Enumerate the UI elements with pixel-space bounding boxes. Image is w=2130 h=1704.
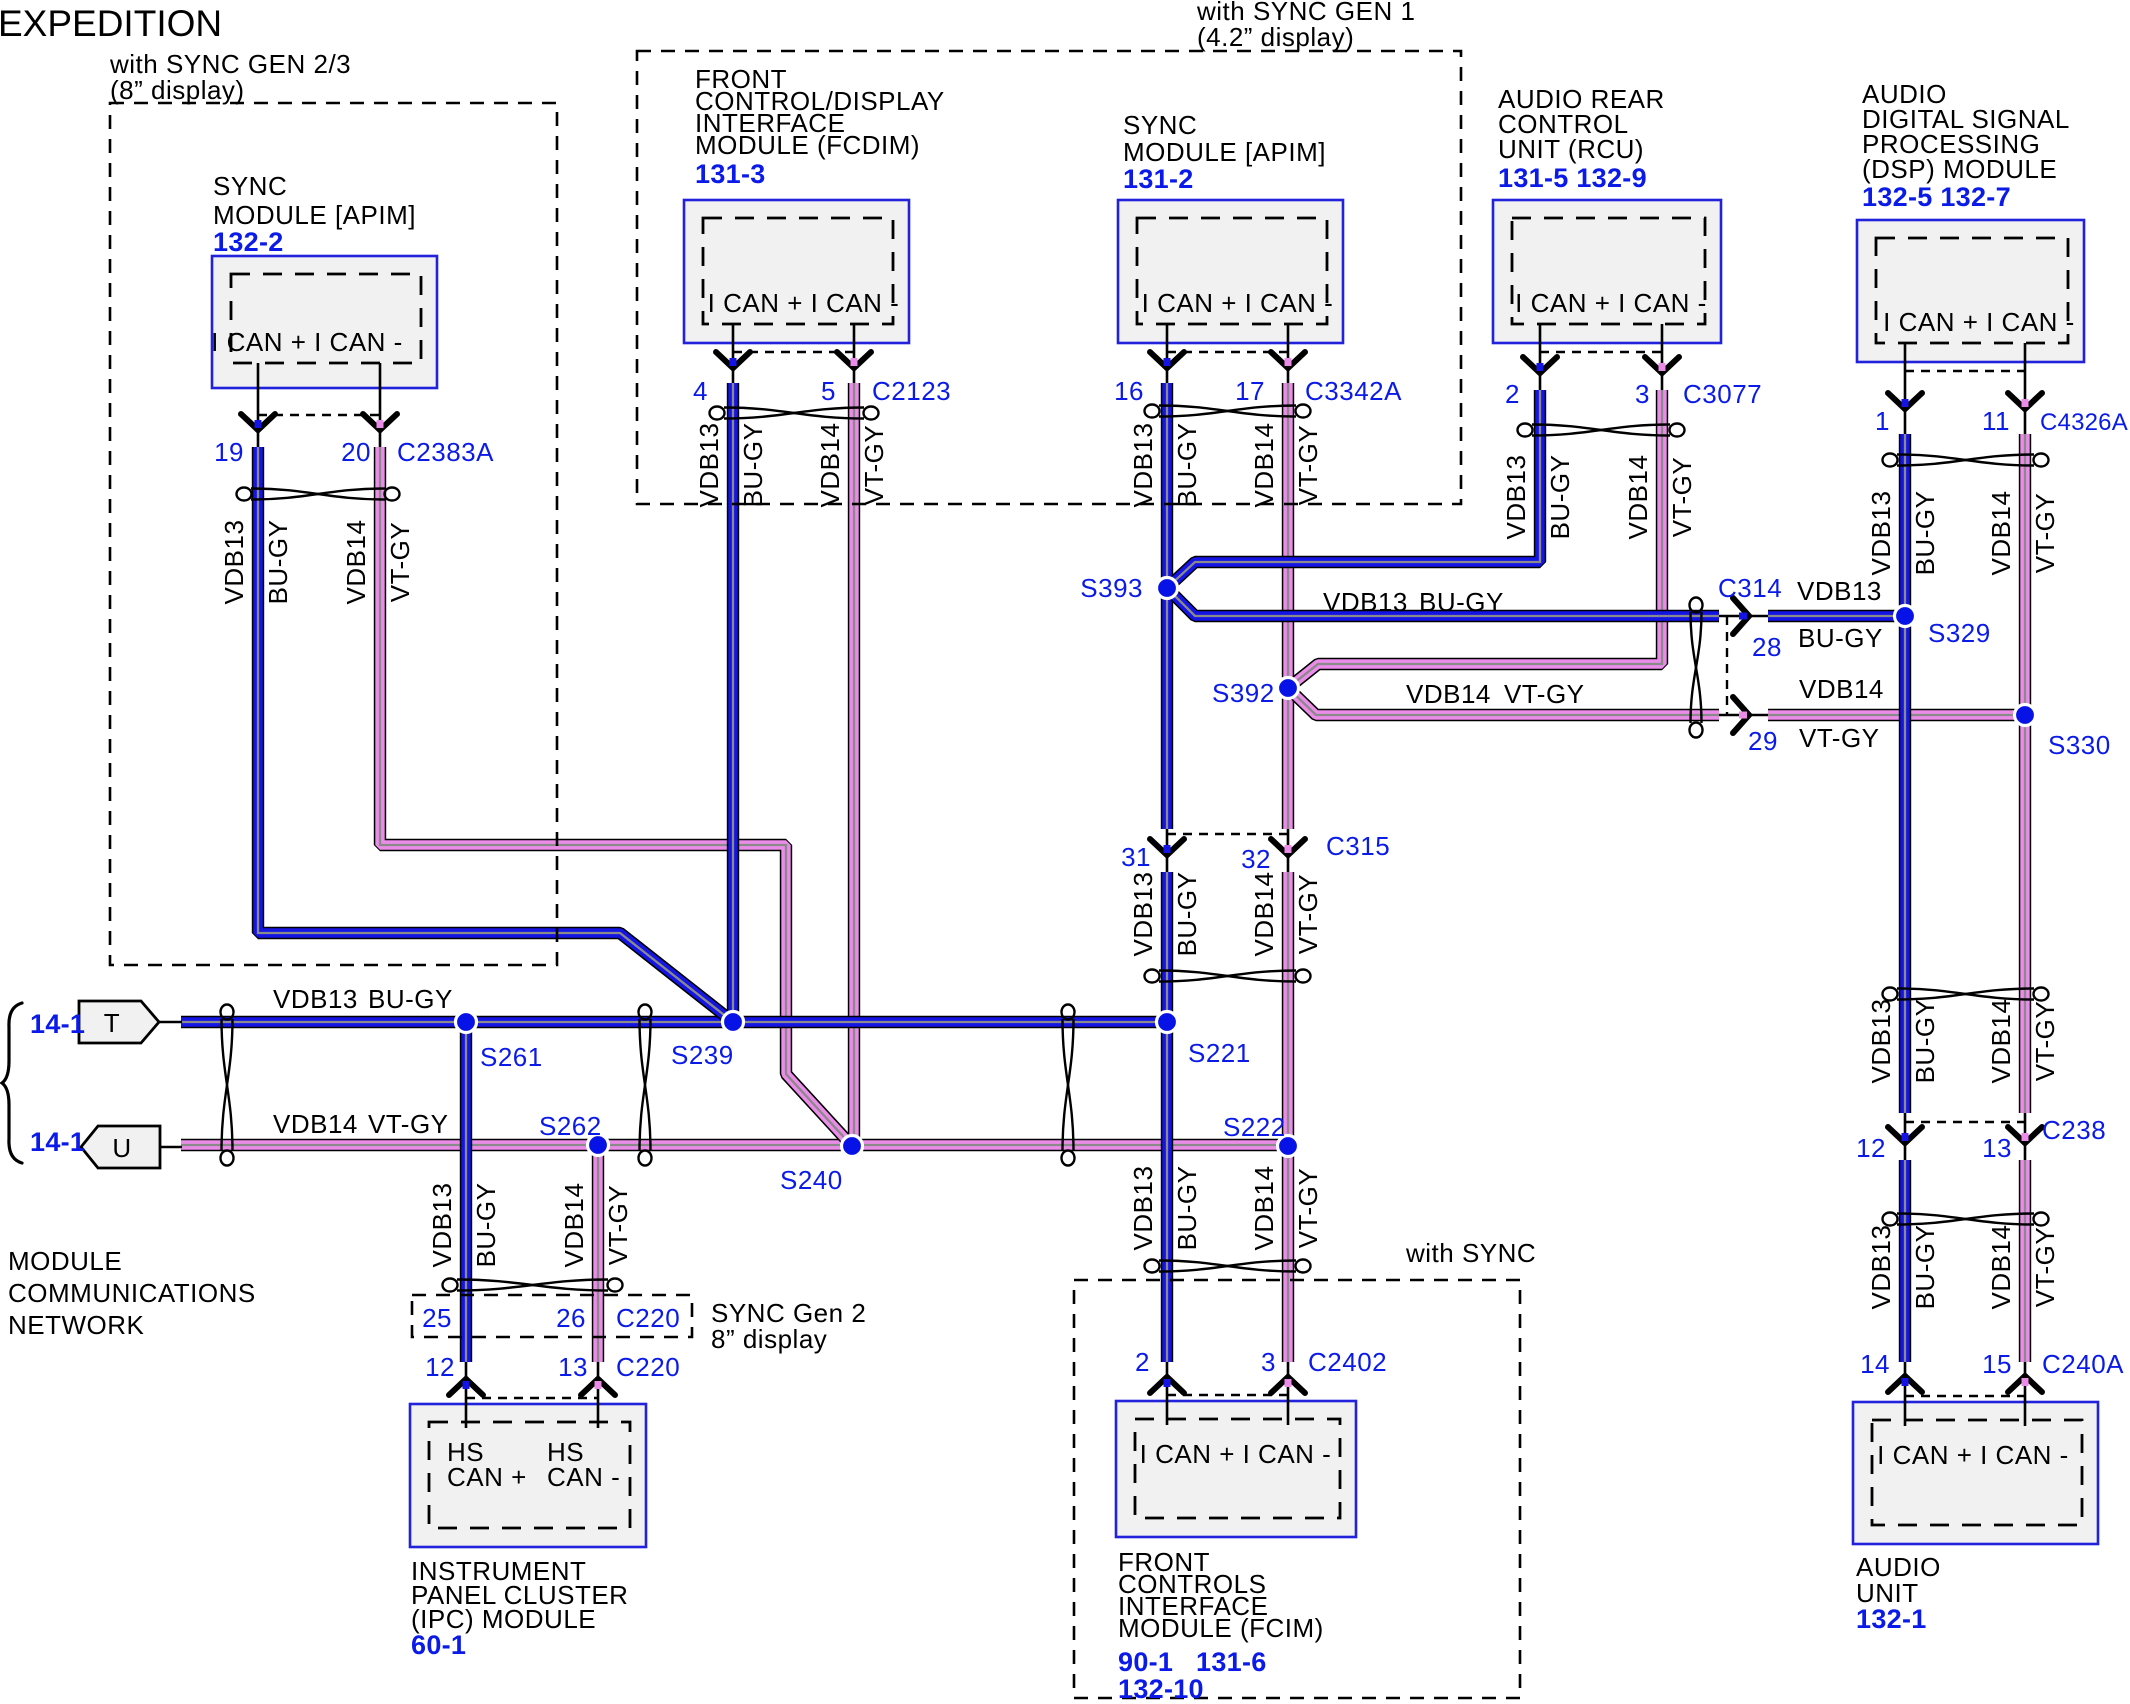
svg-text:17: 17 [1235, 376, 1265, 406]
svg-text:C3342A: C3342A [1305, 376, 1402, 406]
svg-text:S222: S222 [1223, 1112, 1286, 1142]
svg-text:C220: C220 [616, 1303, 680, 1333]
svg-text:MODULE (FCIM): MODULE (FCIM) [1118, 1613, 1324, 1643]
svg-text:C4326A: C4326A [2040, 409, 2128, 436]
svg-text:VDB14: VDB14 [1986, 491, 2016, 576]
svg-text:VDB14: VDB14 [273, 1109, 358, 1139]
svg-text:14-1: 14-1 [30, 1127, 85, 1157]
svg-text:VT-GY: VT-GY [1293, 874, 1323, 955]
svg-text:3: 3 [1261, 1347, 1276, 1377]
svg-text:EXPEDITION: EXPEDITION [0, 3, 222, 44]
svg-text:VDB14: VDB14 [1986, 999, 2016, 1084]
svg-text:VT-GY: VT-GY [1293, 1168, 1323, 1249]
svg-text:VT-GY: VT-GY [2030, 1001, 2060, 1082]
svg-text:BU-GY: BU-GY [1910, 1225, 1940, 1310]
svg-text:S330: S330 [2048, 730, 2111, 760]
svg-text:VDB13: VDB13 [1797, 576, 1882, 606]
svg-text:C240A: C240A [2042, 1349, 2124, 1379]
svg-text:S240: S240 [780, 1165, 843, 1195]
svg-text:MODULE (FCDIM): MODULE (FCDIM) [695, 130, 920, 160]
svg-text:T: T [104, 1008, 120, 1038]
svg-text:2: 2 [1135, 1347, 1150, 1377]
svg-text:VT-GY: VT-GY [1504, 679, 1585, 709]
svg-text:S329: S329 [1928, 618, 1991, 648]
svg-text:28: 28 [1752, 632, 1782, 662]
svg-text:26: 26 [556, 1303, 586, 1333]
svg-text:131-6: 131-6 [1196, 1647, 1267, 1677]
svg-text:BU-GY: BU-GY [471, 1183, 501, 1268]
svg-text:VDB13: VDB13 [1866, 999, 1896, 1084]
svg-text:I CAN + I CAN -: I CAN + I CAN - [1140, 1439, 1332, 1469]
svg-text:VDB13: VDB13 [1323, 587, 1408, 617]
svg-text:VDB13: VDB13 [694, 423, 724, 508]
svg-text:132-10: 132-10 [1118, 1674, 1204, 1704]
svg-text:VT-GY: VT-GY [1799, 723, 1880, 753]
svg-text:VT-GY: VT-GY [1667, 457, 1697, 538]
svg-text:31: 31 [1121, 842, 1151, 872]
svg-text:132-5 132-7: 132-5 132-7 [1862, 182, 2011, 212]
svg-text:12: 12 [425, 1352, 455, 1382]
svg-text:VT-GY: VT-GY [385, 522, 415, 603]
svg-text:BU-GY: BU-GY [738, 423, 768, 508]
svg-text:MODULE [APIM]: MODULE [APIM] [213, 200, 416, 230]
svg-text:(8” display): (8” display) [110, 75, 245, 105]
svg-text:15: 15 [1982, 1349, 2012, 1379]
svg-text:(4.2” display): (4.2” display) [1197, 22, 1354, 52]
svg-text:MODULE: MODULE [8, 1246, 122, 1276]
svg-text:C2123: C2123 [872, 376, 951, 406]
svg-text:CAN -: CAN - [547, 1462, 620, 1492]
svg-text:VDB13: VDB13 [273, 984, 358, 1014]
svg-text:S392: S392 [1212, 678, 1275, 708]
svg-text:S393: S393 [1080, 573, 1143, 603]
svg-text:S262: S262 [539, 1111, 602, 1141]
svg-text:SYNC: SYNC [213, 171, 287, 201]
svg-text:MODULE [APIM]: MODULE [APIM] [1123, 137, 1326, 167]
svg-text:VDB14: VDB14 [1249, 1166, 1279, 1251]
svg-text:13: 13 [1982, 1133, 2012, 1163]
svg-text:1: 1 [1875, 406, 1890, 436]
svg-text:VDB14: VDB14 [1623, 455, 1653, 540]
svg-text:VDB14: VDB14 [1406, 679, 1491, 709]
svg-text:VDB13: VDB13 [1866, 1225, 1896, 1310]
svg-text:2: 2 [1505, 379, 1520, 409]
svg-text:VT-GY: VT-GY [1293, 425, 1323, 506]
svg-text:VDB14: VDB14 [1249, 423, 1279, 508]
svg-text:CAN +: CAN + [447, 1462, 527, 1492]
svg-text:C238: C238 [2042, 1115, 2106, 1145]
svg-text:VDB14: VDB14 [559, 1183, 589, 1268]
svg-text:4: 4 [693, 376, 708, 406]
svg-text:C315: C315 [1326, 831, 1390, 861]
svg-text:SYNC: SYNC [1123, 110, 1197, 140]
svg-text:VT-GY: VT-GY [603, 1185, 633, 1266]
svg-text:C220: C220 [616, 1352, 680, 1382]
svg-text:BU-GY: BU-GY [1910, 999, 1940, 1084]
svg-text:60-1: 60-1 [411, 1630, 466, 1660]
svg-text:C3077: C3077 [1683, 379, 1762, 409]
svg-text:VT-GY: VT-GY [2030, 493, 2060, 574]
svg-text:VDB13: VDB13 [1501, 455, 1531, 540]
svg-text:BU-GY: BU-GY [1172, 423, 1202, 508]
svg-text:S239: S239 [671, 1040, 734, 1070]
svg-text:BU-GY: BU-GY [1172, 872, 1202, 957]
svg-text:VDB13: VDB13 [427, 1183, 457, 1268]
svg-text:5: 5 [821, 376, 836, 406]
svg-text:VT-GY: VT-GY [859, 425, 889, 506]
svg-text:VT-GY: VT-GY [2030, 1227, 2060, 1308]
svg-text:S221: S221 [1188, 1038, 1251, 1068]
svg-text:132-2: 132-2 [213, 227, 284, 257]
svg-text:C2402: C2402 [1308, 1347, 1387, 1377]
svg-text:25: 25 [422, 1303, 452, 1333]
svg-text:NETWORK: NETWORK [8, 1310, 145, 1340]
svg-text:I CAN + I CAN -: I CAN + I CAN - [211, 327, 403, 357]
svg-text:131-5 132-9: 131-5 132-9 [1498, 163, 1647, 193]
svg-text:VT-GY: VT-GY [368, 1109, 449, 1139]
svg-text:13: 13 [558, 1352, 588, 1382]
svg-text:3: 3 [1635, 379, 1650, 409]
svg-text:VDB13: VDB13 [1128, 872, 1158, 957]
svg-text:16: 16 [1114, 376, 1144, 406]
svg-text:131-2: 131-2 [1123, 164, 1194, 194]
svg-text:8” display: 8” display [711, 1324, 827, 1354]
svg-text:19: 19 [214, 437, 244, 467]
svg-text:VDB13: VDB13 [1866, 491, 1896, 576]
svg-text:(DSP) MODULE: (DSP) MODULE [1862, 154, 2057, 184]
svg-text:I CAN + I CAN -: I CAN + I CAN - [1142, 288, 1334, 318]
svg-text:BU-GY: BU-GY [1172, 1166, 1202, 1251]
svg-text:BU-GY: BU-GY [1798, 623, 1883, 653]
svg-text:with SYNC: with SYNC [1405, 1238, 1536, 1268]
svg-text:20: 20 [341, 437, 371, 467]
svg-text:VDB14: VDB14 [1986, 1225, 2016, 1310]
svg-text:I CAN + I CAN -: I CAN + I CAN - [1877, 1440, 2069, 1470]
svg-text:14-1: 14-1 [30, 1009, 85, 1039]
svg-text:BU-GY: BU-GY [263, 520, 293, 605]
svg-text:S261: S261 [480, 1042, 543, 1072]
svg-text:12: 12 [1856, 1133, 1886, 1163]
svg-text:COMMUNICATIONS: COMMUNICATIONS [8, 1278, 256, 1308]
svg-text:32: 32 [1241, 844, 1271, 874]
svg-text:29: 29 [1748, 726, 1778, 756]
svg-text:14: 14 [1860, 1349, 1890, 1379]
svg-text:U: U [112, 1133, 131, 1163]
svg-text:11: 11 [1982, 406, 2010, 436]
svg-text:BU-GY: BU-GY [1419, 587, 1504, 617]
svg-text:C314: C314 [1718, 573, 1782, 603]
svg-text:C2383A: C2383A [397, 437, 494, 467]
svg-text:VDB14: VDB14 [1249, 872, 1279, 957]
svg-text:BU-GY: BU-GY [1910, 491, 1940, 576]
svg-text:90-1: 90-1 [1118, 1647, 1173, 1677]
svg-text:I CAN + I CAN -: I CAN + I CAN - [1515, 288, 1707, 318]
svg-text:I CAN + I CAN -: I CAN + I CAN - [1883, 307, 2075, 337]
svg-text:132-1: 132-1 [1856, 1604, 1927, 1634]
svg-text:BU-GY: BU-GY [368, 984, 453, 1014]
svg-text:VDB13: VDB13 [1128, 1166, 1158, 1251]
svg-text:VDB14: VDB14 [341, 520, 371, 605]
svg-text:VDB13: VDB13 [219, 520, 249, 605]
svg-text:VDB13: VDB13 [1128, 423, 1158, 508]
svg-text:VDB14: VDB14 [1799, 674, 1884, 704]
svg-text:131-3: 131-3 [695, 159, 766, 189]
svg-text:VDB14: VDB14 [815, 423, 845, 508]
svg-text:I CAN + I CAN -: I CAN + I CAN - [708, 288, 900, 318]
svg-text:UNIT (RCU): UNIT (RCU) [1498, 134, 1644, 164]
svg-text:BU-GY: BU-GY [1545, 455, 1575, 540]
